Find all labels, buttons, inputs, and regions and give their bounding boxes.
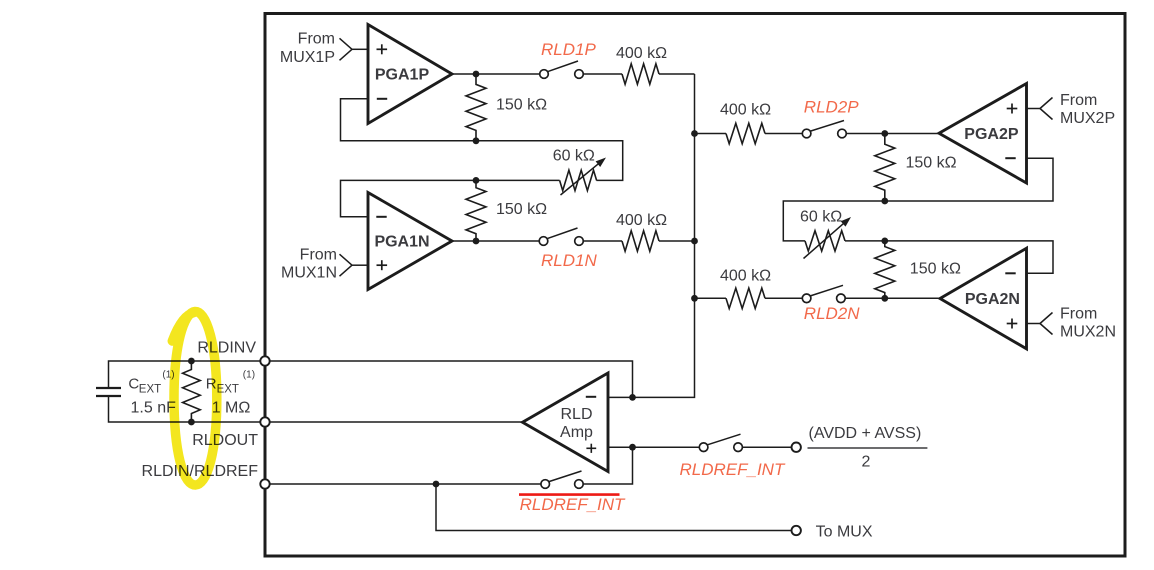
node REXT top (188, 358, 195, 365)
svg-text:400 kΩ: 400 kΩ (720, 267, 771, 284)
capacitor CEXT (96, 388, 121, 396)
wire MUX1N input to PGA1N (352, 264, 368, 266)
node bus junction RLD2N (691, 295, 698, 302)
highlighter annotation around REXT (172, 311, 217, 485)
switch RLD2N (802, 285, 845, 302)
svg-text:400 kΩ: 400 kΩ (616, 45, 667, 62)
terminal RLDIN/RLDREF (260, 479, 269, 488)
node REXT bottom (188, 419, 195, 426)
op-amp PGA1P (368, 25, 452, 124)
input chevron MUX2N (1040, 313, 1053, 335)
wire to MUX output (436, 484, 792, 531)
node PGA1P feedback junction (473, 137, 480, 144)
svg-text:PGA1P: PGA1P (375, 66, 430, 83)
resistor 60 k&#937; variable (PGA2 gain) (804, 217, 852, 259)
switch RLD1P (540, 61, 584, 78)
resistor 400 k&#937; (RLD2P branch) (726, 123, 765, 143)
resistor 150 k&#937; (PGA1P feedback) (466, 74, 486, 141)
wire PGA1P output (452, 73, 540, 75)
wire PGA1N output (452, 240, 539, 242)
svg-text:60 kΩ: 60 kΩ (800, 209, 842, 226)
svg-text:MUX1N: MUX1N (281, 265, 337, 282)
resistor 150 k&#937; (PGA2N feedback) (875, 241, 895, 298)
op-amp PGA2N (940, 248, 1027, 349)
wire RLDREF switch to RLDIN/RLDREF terminal (270, 483, 541, 485)
svg-text:To MUX: To MUX (816, 524, 873, 541)
wire 400 k&#937; to summing bus (RLD1N) (659, 240, 695, 242)
svg-text:MUX2N: MUX2N (1060, 324, 1116, 341)
wire summing bus vertical (608, 74, 695, 397)
wire PGA2P noninverting input (1027, 108, 1041, 110)
switch RLDREF_INT (to midsupply) (699, 434, 742, 451)
node 60 k&#937; / 150 k&#937; junction (PGA2) (881, 238, 888, 245)
label RLDINV (197, 340, 256, 357)
wire 400 k&#937; to summing bus (RLD2N) (695, 297, 727, 299)
svg-text:RLDOUT: RLDOUT (192, 432, 258, 449)
terminal To MUX (792, 526, 801, 535)
label From MUX1P (280, 31, 335, 66)
svg-text:2: 2 (862, 453, 871, 470)
wire PGA1P feedback loop (341, 99, 623, 181)
label 400 k&#937; (RLD1N branch) (616, 212, 667, 229)
node PGA2N output junction (881, 295, 888, 302)
wire 400 k&#937; to summing bus (659, 73, 695, 75)
label From MUX2N (1060, 306, 1116, 341)
terminal RLDOUT (260, 417, 269, 426)
input chevron MUX2P (1040, 98, 1053, 120)
svg-text:RLD1P: RLD1P (541, 40, 596, 59)
resistor 400 k&#937; (RLD1N branch) (622, 231, 659, 251)
label RLD1N (541, 251, 597, 270)
label RLDREF_INT (to midsupply) (680, 460, 786, 479)
op-amp PGA1N (368, 193, 452, 290)
node RLDREF / To MUX junction (433, 481, 440, 488)
node RLD inverting junction (629, 394, 636, 401)
label (AVDD + AVSS)/2 (808, 425, 928, 471)
wire summing bus to 400 k&#937; (RLD2P) (695, 133, 727, 135)
label 400 k&#937; (RLD2N branch) (720, 267, 771, 284)
node PGA2P input junction (881, 130, 888, 137)
svg-text:MUX1P: MUX1P (280, 49, 335, 66)
label RLD1P (541, 40, 596, 59)
node bus junction RLD2P (691, 130, 698, 137)
svg-text:150 kΩ: 150 kΩ (496, 201, 547, 218)
svg-text:RLDREF_INT: RLDREF_INT (520, 495, 626, 514)
svg-text:From: From (300, 246, 337, 263)
wire switch RLD1N to resistor (583, 240, 622, 242)
node bus junction RLD1N (691, 238, 698, 245)
terminal midsupply (792, 443, 801, 452)
svg-text:C: C (128, 376, 139, 393)
svg-text:PGA2N: PGA2N (965, 291, 1020, 308)
resistor 400 k&#937; (RLD1P branch) (622, 64, 659, 84)
wire 60 k&#937; to PGA1N inverting input (341, 180, 560, 216)
label From MUX1N (281, 246, 337, 281)
resistor 150 k&#937; (PGA2P feedback) (875, 134, 895, 202)
svg-text:(1): (1) (243, 370, 255, 381)
wire switch RLD2N to resistor (765, 297, 802, 299)
wire PGA2N noninverting input (1027, 323, 1041, 325)
label 400 k&#937; (RLD2P branch) (720, 102, 771, 119)
resistor 400 k&#937; (RLD2N branch) (726, 288, 765, 308)
svg-text:MUX2P: MUX2P (1060, 110, 1115, 127)
node PGA1N output junction (473, 238, 480, 245)
svg-text:150 kΩ: 150 kΩ (906, 155, 957, 172)
svg-text:400 kΩ: 400 kΩ (616, 212, 667, 229)
outer device box (265, 14, 1125, 557)
wire PGA2N output (845, 297, 940, 299)
wire RLDINV to RLD amp inverting input (270, 361, 633, 397)
svg-text:(AVDD + AVSS): (AVDD + AVSS) (809, 425, 922, 442)
svg-text:PGA1N: PGA1N (374, 233, 429, 250)
svg-text:1.5 nF: 1.5 nF (131, 399, 177, 416)
op-amp RLD Amp (523, 373, 609, 472)
wire RLD amp output to RLDOUT (270, 421, 523, 423)
label RLDIN/RLDREF (142, 463, 259, 480)
wire MUX1P input to PGA1P (352, 48, 368, 50)
node 60 k&#937; / 150 k&#937; junction (473, 177, 480, 184)
wire capacitor to RLDOUT (109, 396, 261, 422)
wire switch RLD1P to resistor (583, 73, 622, 75)
wire RLDINV to external network (109, 361, 261, 388)
label 60 k&#937; (PGA2 gain) (800, 209, 842, 226)
svg-text:EXT: EXT (139, 384, 161, 396)
resistor 150 k&#937; (PGA1N feedback) (466, 180, 486, 241)
label CEXT 1.5 nF (128, 370, 176, 417)
wire 60 k&#937; to PGA2N inverting input (845, 241, 1053, 273)
label 150 k&#937; (PGA1P feedback) (496, 96, 547, 113)
input chevron MUX1N (340, 254, 353, 276)
label To MUX (816, 524, 873, 541)
svg-text:150 kΩ: 150 kΩ (910, 261, 961, 278)
label RLDREF_INT-bar (519, 495, 626, 514)
label RLDOUT (192, 432, 258, 449)
svg-text:Amp: Amp (560, 424, 593, 441)
label 150 k&#937; (PGA2P feedback) (906, 155, 957, 172)
svg-text:RLD1N: RLD1N (541, 251, 597, 270)
svg-text:150 kΩ: 150 kΩ (496, 96, 547, 113)
label 150 k&#937; (PGA2N feedback) (910, 261, 961, 278)
node PGA1P output junction (473, 71, 480, 78)
svg-text:RLD: RLD (560, 406, 592, 423)
switch RLDREF_INT-bar (to RLDREF pin) (541, 471, 583, 488)
resistor REXT 1 M&#937; (183, 361, 201, 422)
input chevron MUX1P (340, 38, 353, 60)
svg-text:RLDINV: RLDINV (197, 340, 256, 357)
label 60 k&#937; (PGA1 gain) (553, 147, 595, 164)
label REXT 1 M&#937; (206, 370, 255, 417)
label 400 k&#937; (RLD1P branch) (616, 45, 667, 62)
svg-text:400 kΩ: 400 kΩ (720, 102, 771, 119)
terminal RLDINV (260, 356, 269, 365)
svg-text:PGA2P: PGA2P (964, 126, 1019, 143)
label RLD2N (804, 304, 860, 323)
svg-text:RLDREF_INT: RLDREF_INT (680, 460, 786, 479)
svg-text:From: From (1060, 306, 1097, 323)
node RLD noninverting junction (629, 444, 636, 451)
node PGA2P feedback junction (881, 198, 888, 205)
wire switch RLD2P to PGA2P (846, 133, 939, 135)
wire RLD noninverting to RLDREF switch (583, 447, 632, 484)
wire RLD noninverting input (608, 446, 699, 448)
wire resistor to switch RLD2P (765, 133, 802, 135)
wire switch to midsupply terminal (742, 446, 791, 448)
wire PGA2P feedback loop (783, 158, 1053, 241)
svg-text:From: From (298, 31, 335, 48)
label 150 k&#937; (PGA1N feedback) (496, 201, 547, 218)
svg-text:RLD2P: RLD2P (804, 98, 859, 117)
op-amp PGA2P (939, 84, 1027, 184)
svg-text:60 kΩ: 60 kΩ (553, 147, 595, 164)
label RLD2P (804, 98, 859, 117)
svg-text:From: From (1060, 92, 1097, 109)
label From MUX2P (1060, 92, 1115, 127)
switch RLD2P (802, 121, 846, 138)
svg-text:RLD2N: RLD2N (804, 304, 860, 323)
switch RLD1N (539, 228, 583, 245)
resistor 60 k&#937; variable (PGA1 gain) (560, 158, 606, 196)
